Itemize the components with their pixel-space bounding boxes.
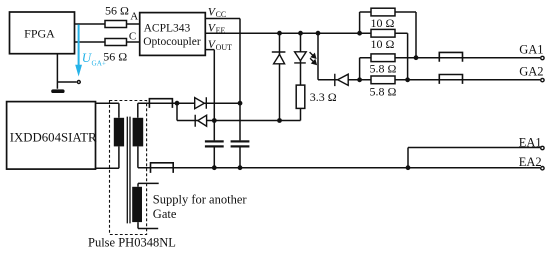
svg-text:GA2: GA2: [519, 65, 543, 79]
svg-text:10 Ω: 10 Ω: [371, 16, 395, 30]
svg-text:ACPL343: ACPL343: [144, 22, 191, 34]
svg-text:Optocoupler: Optocoupler: [143, 36, 201, 48]
svg-text:EE: EE: [216, 26, 226, 35]
svg-text:EA1: EA1: [519, 135, 542, 149]
svg-text:IXDD604SIATR: IXDD604SIATR: [10, 130, 97, 144]
svg-text:56 Ω: 56 Ω: [105, 3, 129, 17]
svg-text:3.3 Ω: 3.3 Ω: [310, 90, 337, 104]
svg-text:Pulse PH0348NL: Pulse PH0348NL: [88, 236, 176, 250]
svg-text:10 Ω: 10 Ω: [371, 37, 395, 51]
svg-text:56 Ω: 56 Ω: [103, 50, 127, 64]
svg-text:C: C: [129, 30, 136, 42]
svg-text:GA+: GA+: [92, 59, 106, 67]
svg-text:Supply for another: Supply for another: [153, 192, 248, 206]
svg-text:Gate: Gate: [153, 207, 177, 221]
svg-text:OUT: OUT: [216, 43, 233, 52]
svg-text:FPGA: FPGA: [24, 27, 55, 41]
svg-text:GA1: GA1: [519, 43, 543, 57]
svg-text:5.8 Ω: 5.8 Ω: [369, 85, 396, 99]
svg-text:CC: CC: [216, 10, 227, 19]
svg-text:5.8 Ω: 5.8 Ω: [369, 62, 396, 76]
svg-text:EA2: EA2: [519, 155, 542, 169]
svg-text:A: A: [130, 11, 138, 23]
